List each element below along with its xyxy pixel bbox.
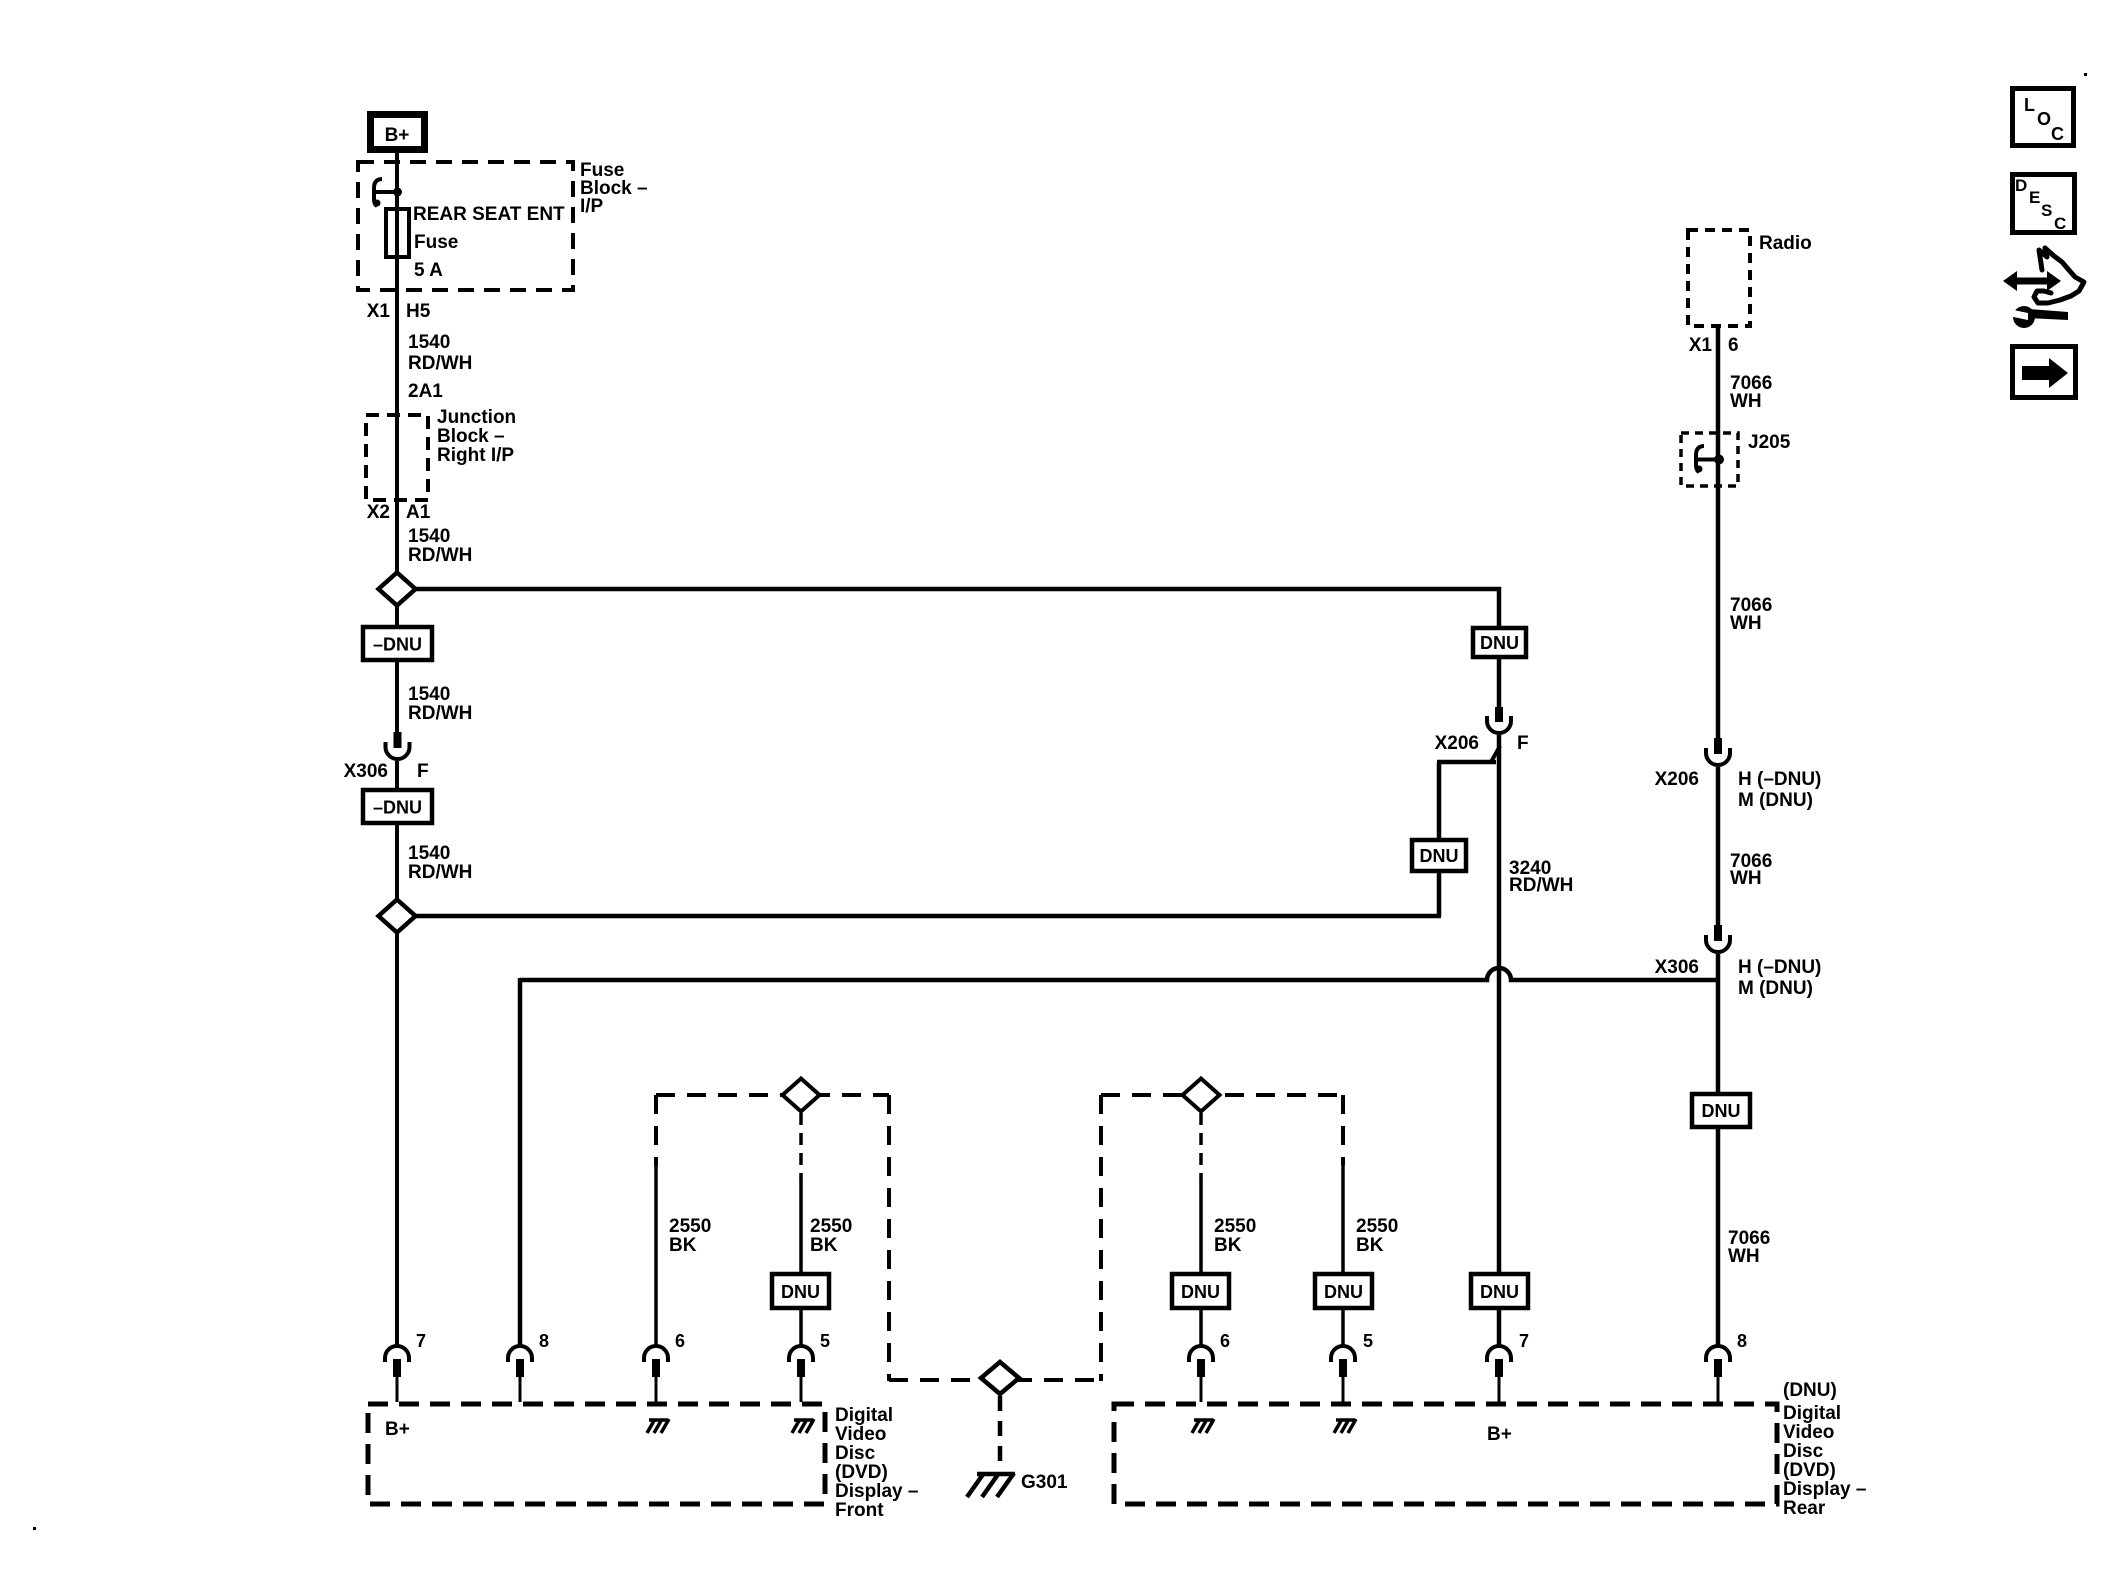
- splice S1 diamond: [379, 573, 416, 606]
- svg-text:1540: 1540: [408, 332, 450, 353]
- svg-text:X2: X2: [367, 502, 390, 523]
- svg-text:Right I/P: Right I/P: [437, 445, 514, 466]
- svg-text:2550: 2550: [810, 1216, 852, 1237]
- svg-text:Display –: Display –: [835, 1481, 918, 1502]
- svg-text:X1: X1: [1689, 335, 1713, 356]
- wire: 2550 BK rear pin 6: [1199, 1178, 1203, 1346]
- wire: horizontal line C (y=980) with hop over 3240 wire: [520, 968, 1718, 980]
- connector pin 8 DVD front: [508, 1331, 549, 1402]
- dashed stub below rear splice diamond: [1199, 1113, 1203, 1179]
- svg-text:Block –: Block –: [437, 426, 505, 447]
- label: 1540 RD/WH (4): [408, 843, 472, 883]
- radio dashed outline: [1688, 230, 1750, 326]
- svg-text:H (–DNU): H (–DNU): [1738, 769, 1821, 790]
- label: X306 F: [344, 761, 429, 782]
- svg-text:A1: A1: [406, 502, 431, 523]
- svg-text:(DVD): (DVD): [835, 1462, 888, 1483]
- DNU box above pin 6 rear: [1172, 1274, 1229, 1308]
- svg-text:X1: X1: [367, 301, 391, 322]
- label: X206 F: [1435, 733, 1529, 754]
- label: pins X1 H5: [367, 301, 431, 322]
- svg-text:WH: WH: [1730, 391, 1762, 412]
- DNU box (-DNU) lower left: [363, 790, 432, 823]
- svg-text:6: 6: [1220, 1331, 1230, 1351]
- wire: branch vertical x=1439 from Y-junction through DNU to line B: [1437, 762, 1442, 916]
- stray scan dot bottom left: [33, 1527, 36, 1530]
- label: 2550 BK rear left: [1214, 1216, 1256, 1256]
- svg-text:G301: G301: [1021, 1472, 1068, 1493]
- label: 7066 WH (1): [1730, 373, 1772, 412]
- svg-text:(DVD): (DVD): [1783, 1460, 1836, 1481]
- connector pin 5 DVD rear: [1331, 1331, 1373, 1402]
- svg-text:D: D: [2015, 176, 2027, 195]
- wire: 2550 BK front pin 6: [654, 1165, 658, 1346]
- svg-text:DNU: DNU: [1324, 1282, 1363, 1302]
- DVD display front dashed outline: [368, 1404, 825, 1504]
- label: 7066 WH (3): [1730, 851, 1772, 889]
- svg-text:J205: J205: [1748, 432, 1791, 453]
- svg-text:X206: X206: [1435, 733, 1479, 754]
- connector pin 7 DVD rear: [1487, 1331, 1529, 1402]
- DNU box above pin 7 rear: [1471, 1274, 1528, 1308]
- wire: radio 7066 WH upper: [1716, 326, 1721, 738]
- label: 7066 WH (2): [1730, 595, 1772, 634]
- svg-text:1540: 1540: [408, 684, 450, 705]
- svg-text:BK: BK: [810, 1235, 838, 1256]
- svg-text:I/P: I/P: [580, 196, 604, 217]
- icon: LOC hotlink box: [2013, 89, 2074, 146]
- svg-text:H5: H5: [406, 301, 431, 322]
- svg-text:Digital: Digital: [835, 1405, 893, 1426]
- connector pin 5 DVD front: [789, 1331, 830, 1402]
- splice diamond rear ground bus: [1183, 1079, 1220, 1112]
- connector pin 6 DVD rear: [1189, 1331, 1230, 1402]
- svg-text:O: O: [2037, 109, 2051, 129]
- wire: horizontal line B from splice S2 to branch x=1439: [415, 914, 1441, 919]
- label: Fuse Block - I/P: [580, 160, 648, 217]
- svg-text:DNU: DNU: [1181, 1282, 1220, 1302]
- icon: DESC hotlink box: [2013, 175, 2075, 234]
- label: 1540 RD/WH (1): [408, 332, 472, 374]
- svg-text:H (–DNU): H (–DNU): [1738, 957, 1821, 978]
- fuse REAR SEAT ENT 5 A: [386, 209, 409, 257]
- svg-text:–DNU: –DNU: [373, 798, 422, 818]
- svg-text:M (DNU): M (DNU): [1738, 978, 1813, 999]
- svg-text:2550: 2550: [1214, 1216, 1256, 1237]
- DNU box (-DNU) upper left: [363, 627, 432, 660]
- svg-text:5: 5: [820, 1331, 830, 1351]
- svg-text:6: 6: [675, 1331, 685, 1351]
- svg-text:B+: B+: [1487, 1424, 1512, 1445]
- svg-text:C: C: [2054, 214, 2066, 233]
- label: 7066 WH (4): [1728, 1228, 1770, 1267]
- svg-text:Video: Video: [1783, 1422, 1834, 1443]
- svg-text:7: 7: [416, 1331, 426, 1351]
- wire: radio 7066 WH below X306 to pin 8 rear: [1716, 954, 1721, 1346]
- svg-text:1540: 1540: [408, 843, 450, 864]
- svg-text:L: L: [2024, 95, 2035, 115]
- stray scan dot top right: [2084, 73, 2087, 76]
- svg-text:Front: Front: [835, 1500, 884, 1521]
- fuse block clip symbol with junction dot: [374, 179, 403, 207]
- svg-text:Rear: Rear: [1783, 1498, 1826, 1519]
- DNU box above pin 5 rear: [1315, 1274, 1372, 1308]
- connector X206 cavity F inline (3240 wire): [1487, 707, 1511, 733]
- svg-text:X306: X306: [344, 761, 388, 782]
- svg-text:–DNU: –DNU: [373, 635, 422, 655]
- svg-text:BK: BK: [1356, 1235, 1384, 1256]
- svg-text:C: C: [2051, 124, 2064, 144]
- splice diamond front ground bus: [783, 1079, 820, 1112]
- svg-text:(DNU): (DNU): [1783, 1380, 1837, 1401]
- svg-text:RD/WH: RD/WH: [408, 703, 472, 724]
- svg-text:RD/WH: RD/WH: [408, 545, 472, 566]
- svg-text:Disc: Disc: [1783, 1441, 1824, 1462]
- label: 1540 RD/WH (3): [408, 684, 472, 724]
- connector pin 7 DVD front: [385, 1331, 426, 1402]
- dashed harness outline rear left edge: [1099, 1095, 1103, 1381]
- ground G301 chassis symbol: [967, 1473, 1015, 1497]
- ground symbol inside rear box pin 5: [1334, 1419, 1356, 1433]
- svg-text:WH: WH: [1730, 868, 1762, 889]
- svg-text:X306: X306: [1655, 957, 1699, 978]
- connector pin 6 DVD front: [644, 1331, 685, 1402]
- wire: 2550 BK rear pin 5: [1341, 1164, 1345, 1346]
- svg-text:DNU: DNU: [1480, 633, 1519, 653]
- icon: connector repair (double arrow, terminal outline, wrench): [2003, 248, 2084, 328]
- ground symbol inside front box pin 6: [647, 1419, 669, 1433]
- ground symbol inside rear box pin 6: [1192, 1419, 1214, 1433]
- svg-text:DNU: DNU: [1702, 1101, 1741, 1121]
- svg-text:F: F: [417, 761, 429, 782]
- svg-text:Radio: Radio: [1759, 233, 1812, 254]
- dashed harness outline front right edge: [887, 1095, 891, 1381]
- svg-text:E: E: [2029, 188, 2040, 207]
- splice J205 clip symbol with junction dot: [1696, 446, 1725, 473]
- label: Junction Block - Right I/P: [437, 407, 516, 466]
- icon: forward arrow box: [2013, 347, 2076, 398]
- svg-text:RD/WH: RD/WH: [1509, 875, 1573, 896]
- label: (DNU) Digital Video Disc (DVD) Display - Rear: [1783, 1380, 1866, 1519]
- DNU box above pin 5 front: [772, 1274, 829, 1308]
- junction block right I/P dashed outline: [366, 415, 428, 500]
- svg-text:F: F: [1517, 733, 1529, 754]
- svg-text:DNU: DNU: [1420, 846, 1459, 866]
- wire: radio 7066 WH between X206 and X306: [1716, 767, 1721, 925]
- splice S2 diamond: [379, 900, 416, 933]
- svg-text:Video: Video: [835, 1424, 886, 1445]
- DVD display rear dashed outline: [1114, 1404, 1777, 1504]
- dashed ground bus run to G301 and rear: [889, 1378, 1101, 1382]
- label: Digital Video Disc (DVD) Display - Front: [835, 1405, 918, 1521]
- dashed drop to ground G301: [998, 1396, 1003, 1470]
- wire: vertical 3240 RD/WH lower segment to pin 7 rear: [1497, 735, 1502, 1346]
- connector X306 cavity F inline (left): [386, 732, 410, 759]
- label: 1540 RD/WH (2): [408, 526, 472, 566]
- connector X306 cavity H inline (radio wire): [1706, 925, 1730, 952]
- wire: 2550 BK front pin 5: [799, 1177, 803, 1346]
- svg-text:RD/WH: RD/WH: [408, 353, 472, 374]
- svg-text:S: S: [2041, 201, 2052, 220]
- DNU box on radio wire: [1692, 1094, 1750, 1127]
- svg-text:2550: 2550: [1356, 1216, 1398, 1237]
- svg-text:6: 6: [1728, 335, 1739, 356]
- dashed harness outline front (around grounds) left edge: [654, 1095, 658, 1166]
- fuse block I/P dashed outline: [358, 162, 573, 290]
- svg-text:Display –: Display –: [1783, 1479, 1866, 1500]
- svg-text:WH: WH: [1728, 1246, 1760, 1267]
- svg-text:Fuse: Fuse: [414, 232, 458, 253]
- wire: left main below X306 connector down to pin 7 front: [395, 761, 399, 1346]
- svg-text:M (DNU): M (DNU): [1738, 790, 1813, 811]
- power symbol B+ box: [371, 115, 425, 150]
- label: REAR SEAT ENT Fuse 5 A: [413, 204, 565, 281]
- svg-text:8: 8: [539, 1331, 549, 1351]
- svg-text:8: 8: [1737, 1331, 1747, 1351]
- connector X206 cavity H inline (radio wire): [1706, 738, 1730, 765]
- svg-text:Junction: Junction: [437, 407, 516, 428]
- splice J205 dashed outline: [1681, 433, 1738, 486]
- svg-text:BK: BK: [1214, 1235, 1242, 1256]
- wire: vertical 3240 RD/WH upper segment x=1499: [1497, 587, 1502, 707]
- label: X206 H (-DNU) M (DNU): [1655, 769, 1822, 811]
- svg-text:BK: BK: [669, 1235, 697, 1256]
- dashed stub below front splice diamond: [799, 1113, 803, 1178]
- svg-text:7: 7: [1519, 1331, 1529, 1351]
- svg-text:REAR SEAT ENT: REAR SEAT ENT: [413, 204, 565, 225]
- svg-text:5: 5: [1363, 1331, 1373, 1351]
- dashed harness outline front top edge: [656, 1093, 889, 1097]
- label: 2550 BK front right: [810, 1216, 852, 1256]
- dashed harness outline rear top edge: [1101, 1093, 1342, 1097]
- svg-text:2550: 2550: [669, 1216, 711, 1237]
- DNU box on branch x=1439: [1412, 840, 1466, 871]
- ground symbol inside front box pin 5: [792, 1419, 814, 1433]
- wire: B+ feed down left main (1540 RD/WH) upper part: [395, 153, 399, 732]
- DNU box on 3240 wire (top): [1473, 628, 1526, 657]
- svg-text:1540: 1540: [408, 526, 450, 547]
- label: 2550 BK rear right: [1356, 1216, 1398, 1256]
- svg-text:X206: X206: [1655, 769, 1699, 790]
- label: pins X2 A1: [367, 502, 431, 523]
- svg-text:Disc: Disc: [835, 1443, 876, 1464]
- svg-text:2A1: 2A1: [408, 381, 443, 402]
- splice diamond at G301: [981, 1362, 1019, 1394]
- svg-text:5 A: 5 A: [414, 260, 443, 281]
- wire: vertical to pin 8 front x=520: [518, 978, 523, 1346]
- svg-text:WH: WH: [1730, 613, 1762, 634]
- svg-text:RD/WH: RD/WH: [408, 862, 472, 883]
- wire: horizontal line A from splice S1 to DNU branch x=1499: [415, 587, 1501, 592]
- svg-text:B+: B+: [385, 1419, 410, 1440]
- svg-text:B+: B+: [385, 125, 410, 146]
- wire: Y-diagonal joining branch to 3240 wire: [1491, 746, 1500, 762]
- label: X306 H (-DNU) M (DNU): [1655, 957, 1822, 999]
- wire: branch horizontal at y=762 to main 3240 wire: [1437, 760, 1496, 765]
- svg-text:Digital: Digital: [1783, 1403, 1841, 1424]
- connector pin 8 DVD rear: [1706, 1331, 1747, 1402]
- label: pins X1 6 (radio): [1689, 335, 1739, 356]
- label: 2550 BK front left: [669, 1216, 711, 1256]
- label: 3240 RD/WH: [1509, 858, 1573, 896]
- svg-text:DNU: DNU: [1480, 1282, 1519, 1302]
- dashed harness outline rear right edge: [1341, 1095, 1345, 1165]
- svg-text:DNU: DNU: [781, 1282, 820, 1302]
